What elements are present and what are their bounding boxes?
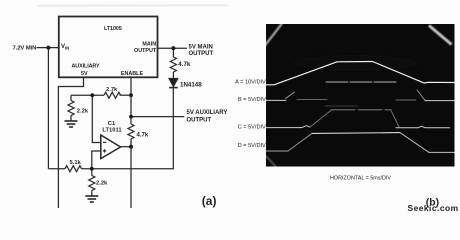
node dot 2.7k left junction <box>90 93 94 97</box>
svg-text:5V MAIN: 5V MAIN <box>189 44 213 50</box>
trace C right baseline <box>396 126 450 128</box>
svg-text:A = 10V/DIV: A = 10V/DIV <box>235 79 266 85</box>
trace D left baseline <box>266 150 288 152</box>
op-amp minus mark <box>103 141 106 143</box>
trace B ghost segment left <box>297 99 327 101</box>
op-amp plus mark <box>103 149 106 152</box>
wire 2.7k node line <box>71 94 104 96</box>
resistor R 4.7k lower body <box>128 124 134 139</box>
wire 4.7k lower to output node down to bottom <box>130 139 132 208</box>
wire op-amp output <box>121 146 132 148</box>
trace B falling edge <box>417 90 425 100</box>
trace D right baseline <box>429 151 455 153</box>
resistor R 4.7k upper body <box>170 57 176 72</box>
wire auxiliary pin down-left-down <box>58 77 83 208</box>
resistor R 2.2k upper body <box>68 101 74 116</box>
CRT faint phosphor glow <box>293 55 417 71</box>
scan smudge top <box>38 5 228 6</box>
node dot main output junction <box>171 46 175 50</box>
svg-text:1N4148: 1N4148 <box>180 81 202 88</box>
trace B left baseline <box>266 99 286 101</box>
wire comparator inv input to rail <box>92 151 101 169</box>
ground symbol lower <box>85 196 98 202</box>
node dot comparator output junction <box>129 145 133 149</box>
glare bottom-left <box>264 154 279 170</box>
svg-text:2.2k: 2.2k <box>96 181 108 187</box>
node dot rail divider junction <box>90 167 94 171</box>
svg-text:5V: 5V <box>81 71 88 77</box>
trace B right baseline <box>425 100 455 102</box>
wire rail 5.1k to corner <box>82 88 174 169</box>
oscilloscope photo CRT black screen <box>266 24 455 167</box>
wire 5V auxiliary output line <box>131 116 184 118</box>
svg-text:OUTPUT: OUTPUT <box>187 118 212 124</box>
wire bottom feedback rail <box>48 168 65 170</box>
wire 4.7k to diode <box>172 72 174 78</box>
wire 2.2k upper lead <box>70 95 72 100</box>
trace B rising edge <box>286 92 295 99</box>
svg-text:AUXILIARY: AUXILIARY <box>72 63 100 69</box>
wire enable vertical <box>130 77 132 124</box>
node dot enable junction <box>129 93 133 97</box>
trace B plateau <box>326 81 396 83</box>
wire input down left side <box>47 48 49 169</box>
resistor R 2.2k lower body <box>89 176 95 191</box>
svg-text:MAIN: MAIN <box>142 41 156 47</box>
op-amp C1 LT1011 triangle <box>101 135 121 159</box>
glare top-left <box>265 24 283 47</box>
svg-text:7.2V MIN: 7.2V MIN <box>13 46 37 52</box>
trace C rising edge <box>310 110 331 127</box>
wire main output down to 4.7k <box>172 48 174 57</box>
ground symbol upper <box>65 121 78 127</box>
node dot aux output junction <box>129 115 133 119</box>
wire 7.2V input to VIN pin <box>37 47 59 49</box>
node dot input junction <box>46 46 50 50</box>
resistor R 5.1k body <box>65 166 82 172</box>
svg-text:5V AUXILIARY: 5V AUXILIARY <box>187 110 228 116</box>
wire 2.2k to ground <box>70 116 72 121</box>
trace D falling edge <box>400 133 429 153</box>
svg-text:(a): (a) <box>202 194 217 208</box>
svg-text:4.7k: 4.7k <box>178 61 191 68</box>
svg-text:VIN: VIN <box>61 44 69 51</box>
wire main output pin <box>158 47 188 49</box>
svg-text:4.7k: 4.7k <box>137 133 149 139</box>
svg-text:C = 5V/DIV: C = 5V/DIV <box>238 124 266 130</box>
svg-text:OUTPUT: OUTPUT <box>189 51 214 57</box>
svg-text:HORIZONTAL = 5ms/DIV: HORIZONTAL = 5ms/DIV <box>330 175 391 181</box>
wire 2.7k to enable node <box>120 94 132 96</box>
svg-text:2.7k: 2.7k <box>106 87 118 93</box>
trace B ghost segment right <box>396 99 416 101</box>
svg-text:2.2k: 2.2k <box>77 109 89 115</box>
resistor R 2.7k body <box>104 92 121 98</box>
wire lower 2.2k lead <box>91 169 93 176</box>
regulator U1 LT1005 box <box>59 17 158 78</box>
glare top-right <box>429 26 452 45</box>
svg-text:5.1k: 5.1k <box>70 160 82 166</box>
trace A trapezoid <box>266 62 455 85</box>
trace ghost mid <box>325 105 358 107</box>
trace D rising edge <box>288 133 312 151</box>
svg-text:ENABLE: ENABLE <box>121 71 144 77</box>
wire comparator noninv node <box>92 95 101 142</box>
svg-text:LT1005: LT1005 <box>104 26 122 32</box>
trace D plateau <box>312 132 400 135</box>
svg-text:OUTPUT: OUTPUT <box>134 48 157 54</box>
wire 2.2k lower to ground <box>91 191 93 196</box>
trace C left baseline <box>266 126 310 128</box>
trace C falling edge <box>391 110 399 127</box>
svg-text:Seekic.com: Seekic.com <box>408 203 459 213</box>
diode D1 1N4148 <box>169 79 178 88</box>
svg-text:C1: C1 <box>108 121 116 127</box>
trace C plateau <box>331 109 391 111</box>
svg-text:B = 5V/DIV: B = 5V/DIV <box>238 97 266 103</box>
svg-text:LT1011: LT1011 <box>102 128 122 134</box>
svg-text:D = 5V/DIV: D = 5V/DIV <box>238 143 266 149</box>
